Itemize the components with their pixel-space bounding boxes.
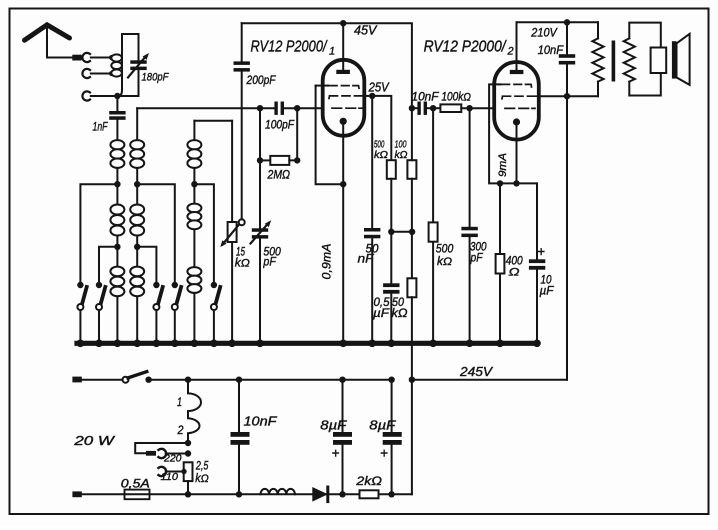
potentiometer wiper terminal circle <box>239 219 245 225</box>
wire voltage selector plug lead <box>135 443 188 453</box>
dropper resistor with loops <box>188 380 201 443</box>
junction top rail at 8uF no1 <box>339 377 345 383</box>
wire 10nF to 100k grid stopper <box>427 107 440 109</box>
junction column2 row1 <box>134 181 140 187</box>
label RV12 P2000/1 <box>251 39 336 58</box>
svg-text:kΩ: kΩ <box>395 149 408 161</box>
svg-text:µF: µF <box>540 285 555 297</box>
junction 400 Ohm node <box>497 180 503 186</box>
junction 50k node right <box>409 229 415 235</box>
wire tube V1 g1 exit left <box>316 85 328 87</box>
wire tube V2 g2 exit right to transformer <box>539 95 598 97</box>
wire 8uF no2 bottom lead <box>391 445 393 495</box>
capacitor 300pF <box>461 227 477 237</box>
capacitor 180pF (variable) <box>130 60 146 70</box>
wire 500pF vertical (grid wire to bus) <box>259 108 261 343</box>
arrow of 500pF <box>251 223 269 244</box>
plug voltage selector <box>146 451 156 456</box>
wire socket 220 to dropper line <box>166 453 188 455</box>
junction switch S6 right <box>145 377 151 383</box>
capacitor 8uF no1 <box>333 432 352 445</box>
svg-text:9mA: 9mA <box>497 153 509 177</box>
svg-text:pF: pF <box>263 255 277 269</box>
anode rail 2 (210V) <box>517 21 599 23</box>
switch S4 <box>172 282 182 344</box>
svg-text:2kΩ: 2kΩ <box>355 474 382 488</box>
wire connector 0,5uF node to 50k node <box>391 231 412 233</box>
capacitor 10nF output <box>559 54 575 64</box>
wire secondary loop to speaker <box>629 23 661 96</box>
junction rail2 at 10nF <box>564 19 570 25</box>
label 100 kOhm vertical <box>395 139 408 162</box>
wire 50nF to bus <box>371 238 373 343</box>
junction column2 row2 <box>134 244 140 250</box>
wire potentiometer bottom to bus <box>231 242 233 343</box>
svg-text:100kΩ: 100kΩ <box>441 91 471 103</box>
svg-text:+: + <box>537 244 545 259</box>
junction bottom rail at 8uF no1 <box>339 491 345 497</box>
socket A1 <box>82 53 90 62</box>
arrow of potentiometer 15k <box>223 225 240 245</box>
svg-text:45V: 45V <box>354 24 378 38</box>
wire tube V1 anode lead <box>342 23 344 70</box>
coil column1 winding middle <box>110 205 124 236</box>
switch S2 <box>96 282 106 344</box>
tube V2 cathode <box>513 118 520 125</box>
resistor 500k (screen) <box>387 160 396 179</box>
resistor 2k <box>360 490 379 498</box>
capacitor 10nF coupling (series) <box>417 102 427 115</box>
tube V2 grid g1 (dashed) <box>500 84 532 87</box>
wire node AJ to 1nF <box>116 96 118 111</box>
wire 245V horizontal <box>412 379 567 381</box>
socket 110 <box>158 467 166 476</box>
capacitor 0,5uF <box>383 283 399 293</box>
junction dropper tap node <box>185 440 191 446</box>
coil column1 winding bottom <box>110 267 124 297</box>
transformer T1 core <box>612 41 616 82</box>
label 50 kOhm <box>392 295 408 320</box>
junction 25V node <box>369 93 375 99</box>
tube V2 anode <box>510 70 524 74</box>
wire 10nF output bottom lead <box>566 65 568 97</box>
wire 180pF top lead <box>138 34 140 60</box>
wire 10uF branch corner <box>536 183 538 259</box>
inductor filter choke <box>261 489 295 494</box>
wire 10nF PSU bottom lead <box>238 445 240 495</box>
wire 2M left stub <box>259 108 261 160</box>
wire 10nF PSU top lead <box>238 380 240 432</box>
wire column1 row1 to switch S1 <box>80 184 117 285</box>
wire 200pF top to anode rail <box>241 23 243 61</box>
capacitor 10uF electrolytic <box>529 259 545 269</box>
svg-text:µF: µF <box>373 306 390 320</box>
junction dropper top <box>185 377 191 383</box>
wire 2M left lead <box>260 159 270 161</box>
svg-text:kΩ: kΩ <box>374 149 388 161</box>
coil column1 winding top <box>110 140 124 168</box>
label 15 kOhm <box>235 247 250 270</box>
resistor 400 Ohm <box>496 254 505 274</box>
junction bottom rail at 10nF PSU <box>236 491 242 497</box>
svg-text:220: 220 <box>163 453 182 465</box>
switch S6 mains blade <box>128 372 147 378</box>
coil column2 winding top <box>130 140 144 168</box>
switch S3 <box>153 282 163 344</box>
svg-text:20 W: 20 W <box>73 434 115 448</box>
resistor 50k <box>407 278 416 297</box>
wire socket A2 to coupling coil <box>91 73 111 75</box>
wire column1 vertical (1nF to bus) <box>116 120 118 343</box>
junction 2M right <box>294 157 300 163</box>
diode rectifier <box>312 487 328 502</box>
socket A2 <box>82 69 90 78</box>
wire tube V1 g2 exit right to 25V node <box>365 95 373 97</box>
terminal mains top <box>72 377 81 383</box>
capacitor 1nF <box>109 111 125 120</box>
wire column3 vertical (to bus) <box>193 121 195 343</box>
switch S5 <box>211 282 221 344</box>
coil column3 winding bottom <box>187 267 201 293</box>
svg-text:RV12 P2000/: RV12 P2000/ <box>251 39 328 56</box>
wire 100k down to 50k <box>411 108 413 278</box>
svg-text:100pF: 100pF <box>265 120 295 132</box>
antenna coil L1 main line <box>117 34 122 96</box>
terminal dot coupling top <box>109 55 114 60</box>
junction rail at tube V1 anode <box>340 20 346 26</box>
chassis bus (heavy) <box>77 341 537 346</box>
junction top rail at 10nF PSU <box>236 377 242 383</box>
wire 8uF no1 top lead <box>342 380 344 432</box>
arrow of 180pF <box>128 56 146 78</box>
label 2,5 kOhm <box>195 460 209 485</box>
tube V2 grid g2 (dashed) <box>502 96 539 99</box>
svg-text:25V: 25V <box>368 80 390 94</box>
svg-text:200pF: 200pF <box>246 75 277 87</box>
wire column1 row2 to switch S2 <box>99 247 117 285</box>
svg-text:500: 500 <box>436 244 454 256</box>
label 0,5 uF <box>373 295 390 320</box>
wire 10uF to bus end <box>536 270 538 344</box>
wire 245V node down to PSU bottom corner <box>411 380 413 495</box>
anode supply rail 45V <box>242 23 412 108</box>
label 400 Ohm <box>506 256 524 279</box>
wire mains top to switch <box>82 379 123 381</box>
svg-text:180pF: 180pF <box>142 72 170 84</box>
coil column3 winding middle <box>187 204 201 230</box>
antenna coupling loops <box>111 54 122 76</box>
label 50 nF <box>358 244 380 266</box>
label 500 pF <box>263 245 282 269</box>
resistor 500k grid leak <box>429 222 438 241</box>
wire wiper to 200pF vertical <box>241 72 243 220</box>
wire column2 vertical (grid wire to bus) <box>136 108 138 343</box>
svg-text:0,5A: 0,5A <box>121 477 150 491</box>
svg-text:110: 110 <box>161 471 179 483</box>
label 10 uF <box>540 274 555 297</box>
svg-text:1: 1 <box>329 46 335 58</box>
wire column3 row1 to switch S5 <box>194 184 214 285</box>
wire antenna coil top to 180pF branch <box>122 33 139 35</box>
svg-text:2: 2 <box>507 46 514 58</box>
wire V1 cathode to bus <box>342 184 344 343</box>
wire grid leak 500k vertical <box>432 108 434 343</box>
capacitor 50nF <box>364 228 380 238</box>
wire 8uF no2 top lead <box>391 380 393 432</box>
svg-text:10nF: 10nF <box>244 415 279 429</box>
label 300 pF <box>470 242 487 265</box>
speaker LS1 cone <box>677 34 690 85</box>
junction V2 cathode node <box>513 180 519 186</box>
wire 500k to 0,5uF <box>390 179 392 283</box>
wire 2M right lead and stub <box>289 108 297 160</box>
svg-text:kΩ: kΩ <box>195 473 209 485</box>
tube V2 grid g3 (dashed) <box>505 107 535 109</box>
coil column2 winding bottom <box>130 267 144 297</box>
junction 300pF node <box>466 105 472 111</box>
wire socket 110 to resistor tap <box>166 471 184 473</box>
junction interstage node at rail corner <box>409 105 415 111</box>
transformer T1 primary leads <box>597 22 599 96</box>
wire 50k down across bus to 245V node <box>411 297 413 379</box>
wire grid line column2 to 100pF <box>137 107 274 109</box>
wire potentiometer top lead <box>231 121 233 222</box>
svg-text:nF: nF <box>358 254 375 266</box>
wire 400 Ohm to bus <box>499 274 501 344</box>
junction V1 cathode node <box>340 181 346 187</box>
junction bottom rail at dropper <box>185 491 191 497</box>
socket 220 <box>158 449 166 458</box>
wire interstage node to 10nF <box>412 107 418 109</box>
switch S1 <box>77 282 86 344</box>
wire 100pF to tube V1 grid <box>284 107 323 109</box>
capacitor 200pF <box>234 61 250 71</box>
capacitor 500pF (variable) <box>252 228 268 238</box>
svg-text:8µF: 8µF <box>320 418 348 432</box>
junction 2M left <box>257 157 263 163</box>
svg-text:+: + <box>332 446 340 461</box>
junction column1 row1 <box>114 181 120 187</box>
capacitor 100pF (series) <box>274 102 284 115</box>
terminal dot coupling bottom <box>109 71 114 76</box>
plug antenna <box>72 55 81 61</box>
svg-text:2: 2 <box>177 425 184 437</box>
speaker LS1 diaphragm bar <box>672 41 677 78</box>
wire tube V1 g1 return <box>316 86 344 185</box>
node AJ junction <box>114 93 120 99</box>
wire 100k to tube V2 grid <box>461 107 494 109</box>
resistor 100k grid stopper (horizontal) <box>440 104 461 112</box>
svg-text:+: + <box>380 446 388 461</box>
wire 180pF bottom lead to node AJ <box>117 70 138 96</box>
wire tube V2 g1 exit left and return <box>489 84 537 183</box>
svg-text:kΩ: kΩ <box>392 306 408 320</box>
label 500 kOhm screen <box>374 139 388 162</box>
wire tube V1 cathode lead to junction <box>342 121 344 184</box>
junction grid wire at 2M stub <box>294 105 300 111</box>
junction grid leak node <box>430 105 436 111</box>
wire PSU bottom rail <box>82 493 412 495</box>
svg-text:kΩ: kΩ <box>235 258 250 270</box>
switch S6 mains circle <box>123 377 129 383</box>
capacitor 10nF PSU <box>231 432 250 445</box>
svg-text:2,5: 2,5 <box>195 460 209 472</box>
wire socket A1 to coupling coil <box>91 57 111 59</box>
resistor 2,5k dropper <box>184 462 193 481</box>
terminal mains bottom <box>72 491 81 497</box>
label RV 12 P2000/2 <box>424 39 514 58</box>
transformer T1 primary winding <box>592 38 603 81</box>
wire 25V node down to 50nF <box>371 96 373 228</box>
wire 245V riser <box>566 96 568 380</box>
wire column3 top to potentiometer line <box>194 120 232 122</box>
junction column3 row1 <box>191 181 197 187</box>
antenna <box>25 25 70 40</box>
tube V1 grid g2 (dashed) <box>329 96 365 99</box>
fuse 0,5A <box>125 490 150 500</box>
junction dots on chassis bus <box>77 340 541 348</box>
coil column2 winding middle <box>130 205 144 236</box>
tube V1 anode <box>336 70 350 74</box>
wire column2 row1 to switch S4 <box>137 184 175 285</box>
svg-text:8µF: 8µF <box>369 418 397 432</box>
svg-text:Ω: Ω <box>509 266 520 278</box>
tube V1 grid g3 (dashed) <box>332 107 362 109</box>
svg-text:0,9mA: 0,9mA <box>322 243 334 279</box>
junction bottom rail at 8uF no2 <box>388 491 394 497</box>
op tube V1 RV12 P2000/1 envelope <box>323 60 365 136</box>
junction top rail end at 8uF no2 <box>388 377 394 383</box>
op tube V2 RV12 P2000/2 envelope <box>494 62 539 140</box>
junction grid wire at 500pF line <box>257 105 263 111</box>
junction column1 row2 <box>114 244 120 250</box>
speaker LS1 magnet <box>651 48 667 74</box>
label 500 kOhm grid leak <box>436 244 454 268</box>
capacitor 8uF no2 <box>383 432 402 445</box>
wire 400 Ohm vertical <box>499 183 501 254</box>
svg-text:210V: 210V <box>530 26 557 40</box>
wire socket A3 to node AJ <box>91 95 118 97</box>
wire 8uF no1 bottom lead <box>342 445 344 495</box>
svg-text:10nF: 10nF <box>412 91 440 103</box>
svg-text:245V: 245V <box>459 365 494 379</box>
junction 245V node <box>409 377 415 383</box>
svg-text:2MΩ: 2MΩ <box>267 168 290 182</box>
resistor 100k (vertical) <box>407 160 416 179</box>
wire antenna lead down and right to plug <box>47 25 72 58</box>
junction resistor tap 110 <box>181 469 186 474</box>
wire tube V2 anode lead <box>516 22 518 70</box>
svg-text:pF: pF <box>470 253 484 265</box>
wire 10nF output top lead <box>566 22 568 54</box>
wire dropper resistor to bottom rail <box>187 481 189 494</box>
svg-text:kΩ: kΩ <box>437 256 452 268</box>
junction socket 220 node <box>185 450 191 456</box>
junction B+ node at transformer <box>564 93 570 99</box>
tube V1 cathode <box>340 118 347 125</box>
transformer T1 secondary winding <box>624 38 635 81</box>
wire 25V node to 500k branch <box>372 96 391 160</box>
wire tube V2 cathode lead <box>516 122 518 183</box>
svg-text:RV12 P2000/: RV12 P2000/ <box>424 39 507 56</box>
svg-text:1: 1 <box>177 397 182 409</box>
wire 300pF vertical <box>469 108 471 343</box>
wire column2 row2 to switch S3 <box>137 247 156 285</box>
resistor 2M <box>270 156 289 165</box>
junction 0,5uF node left <box>388 229 394 235</box>
svg-text:1nF: 1nF <box>93 122 109 134</box>
potentiometer 15k body <box>228 222 237 242</box>
socket A3 <box>82 91 90 100</box>
wire PSU top rail <box>149 379 392 381</box>
wire 0,5uF to bus <box>390 294 392 344</box>
tube V1 grid g1 (dashed) <box>328 86 360 89</box>
coil column3 winding top <box>187 140 201 168</box>
